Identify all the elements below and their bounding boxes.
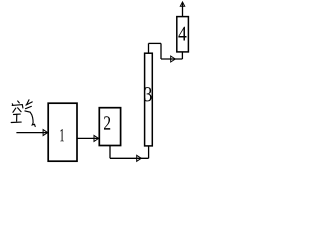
label 3 (145, 87, 152, 101)
unit box 1 (48, 103, 77, 161)
feed arrow (air inlet) (16, 130, 47, 136)
wire overhead horizontal (149, 42, 162, 44)
label 2 (104, 116, 110, 129)
label 4 (178, 27, 186, 41)
label 空气 (air) hand-style text (11, 100, 35, 127)
unit box 2 (99, 108, 120, 146)
arrowhead into column 3 feed (137, 155, 142, 161)
wire overhead to column 4 (161, 58, 182, 60)
arrow box1 to box2 (77, 135, 99, 141)
arrowhead into column 4 feed (171, 56, 176, 62)
label 1 (60, 129, 64, 141)
wire riser into column 4 bottom (181, 52, 183, 59)
column 3 (145, 53, 153, 146)
wire box2 outlet down (109, 146, 111, 159)
wire column3 top up (148, 43, 150, 53)
wire bottom horizontal to column 3 (110, 157, 149, 159)
wire overhead down (160, 43, 162, 59)
wire column4 top vent (182, 3, 184, 17)
wire riser into column 3 bottom (148, 146, 150, 158)
arrowhead vent up (180, 2, 184, 6)
column 4 (177, 17, 189, 52)
